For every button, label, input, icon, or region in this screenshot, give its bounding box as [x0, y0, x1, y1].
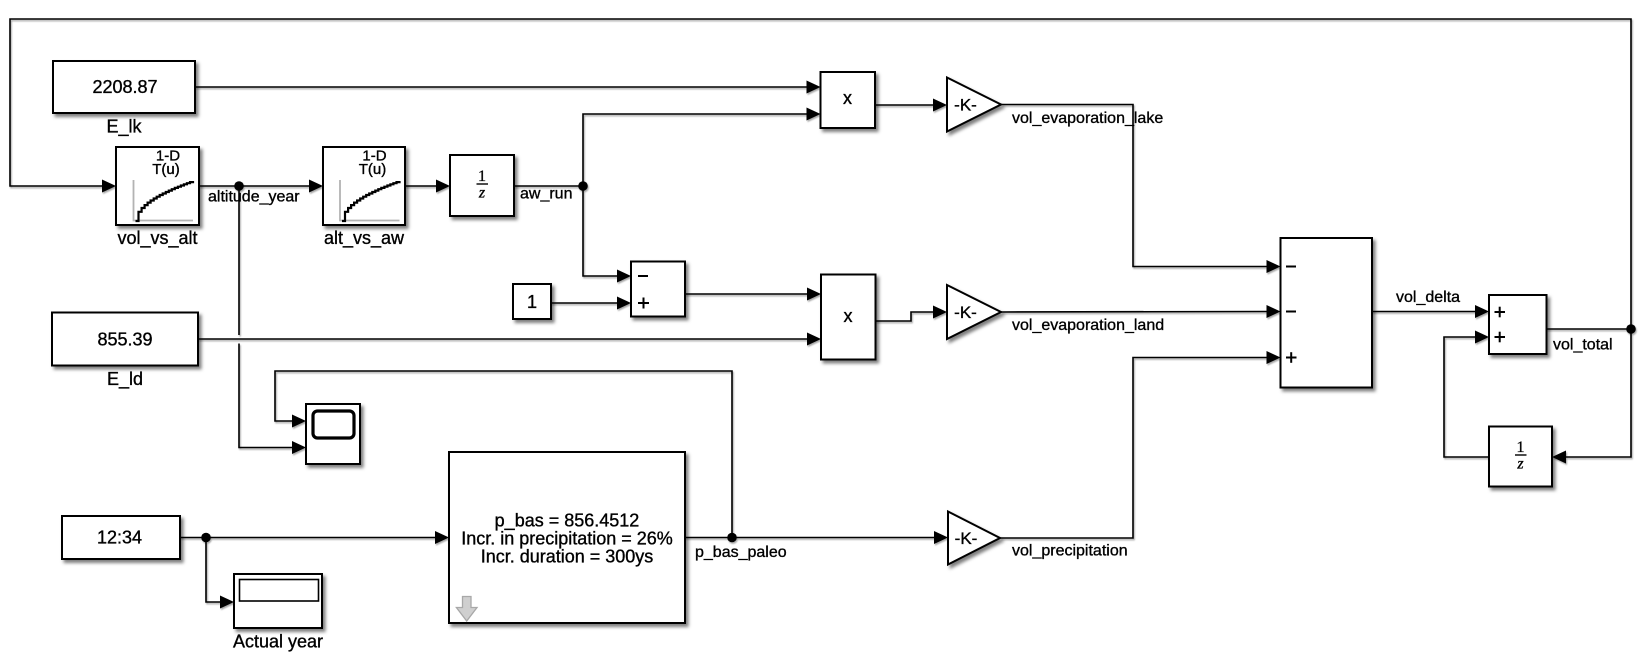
- wire constant 1 to sum plus: [551, 302, 618, 304]
- svg-text:vol_evaporation_lake: vol_evaporation_lake: [1012, 110, 1163, 127]
- svg-text:p_bas_paleo: p_bas_paleo: [695, 544, 787, 561]
- svg-text:alt_vs_aw: alt_vs_aw: [324, 228, 405, 249]
- svg-text:vol_precipitation: vol_precipitation: [1012, 543, 1128, 560]
- svg-text:z: z: [478, 185, 486, 202]
- svg-text:T(u): T(u): [359, 161, 387, 178]
- scope: [306, 404, 360, 464]
- wire clock down to display: [206, 538, 221, 603]
- gain -K- vol_evaporation_lake: [947, 78, 1001, 132]
- svg-text:E_ld: E_ld: [107, 369, 143, 390]
- svg-text:-K-: -K-: [955, 529, 978, 548]
- product X1 (lake): [821, 72, 876, 128]
- wire product X2 to gain land: [876, 312, 934, 321]
- wire p_bas_paleo up to scope: [275, 371, 732, 538]
- wire sum to product X2: [685, 293, 808, 295]
- svg-text:1: 1: [527, 292, 537, 312]
- svg-text:Actual year: Actual year: [233, 632, 323, 652]
- wire big sum to small sum (vol_delta): [1372, 311, 1476, 313]
- svg-text:E_lk: E_lk: [106, 117, 142, 138]
- svg-text:12:34: 12:34: [97, 528, 142, 548]
- lookup table vol_vs_alt: [116, 147, 199, 225]
- svg-text:Incr. in precipitation = 26%: Incr. in precipitation = 26%: [461, 529, 673, 549]
- wire unit delay 2 to small sum: [1444, 337, 1489, 457]
- svg-text:1: 1: [1517, 439, 1525, 456]
- node p_bas_paleo: [727, 533, 737, 543]
- svg-text:vol_vs_alt: vol_vs_alt: [117, 228, 197, 249]
- svg-text:-K-: -K-: [954, 96, 977, 115]
- svg-text:T(u): T(u): [152, 161, 180, 178]
- wire alt_vs_aw to unit delay: [405, 185, 437, 187]
- wire feedback vol_total to vol_vs_alt: [10, 19, 1631, 329]
- wire subsystem to gain precipitation (p_bas_paleo): [685, 537, 935, 539]
- svg-text:vol_total: vol_total: [1553, 337, 1613, 354]
- wire unit delay out (aw_run): [514, 185, 583, 187]
- product X2 (land): [821, 275, 876, 360]
- svg-text:x: x: [843, 88, 852, 108]
- node altitude_year: [234, 181, 244, 191]
- subsystem p_bas paleo: [449, 452, 685, 623]
- node clock out: [201, 533, 211, 543]
- wire vol_total down to unit delay 2: [1566, 329, 1632, 457]
- unit delay 1/z (aw_run): [450, 155, 514, 216]
- svg-text:aw_run: aw_run: [520, 186, 572, 203]
- constant E_lk (2208.87): [53, 61, 195, 113]
- gain -K- vol_evaporation_land: [947, 285, 1001, 339]
- svg-text:x: x: [844, 306, 853, 326]
- digital clock 12:34: [62, 516, 180, 559]
- lookup table alt_vs_aw: [323, 147, 405, 225]
- display (Actual year): [234, 574, 322, 628]
- svg-text:Incr. duration = 300ys: Incr. duration = 300ys: [481, 547, 654, 567]
- big sum (- - +): [1281, 238, 1373, 388]
- svg-text:altitude_year: altitude_year: [208, 189, 300, 206]
- wire altitude_year down to scope (with crossover gap): [238, 186, 240, 335]
- wire E_ld to product X2: [198, 338, 808, 340]
- svg-text:vol_delta: vol_delta: [1396, 289, 1460, 306]
- wire aw_run up to product X1: [583, 114, 807, 186]
- wire clock to subsystem: [180, 537, 436, 539]
- constant E_ld (855.39): [52, 313, 198, 366]
- wire product X1 to gain lake: [875, 104, 934, 106]
- wire E_lk to product X1: [195, 86, 807, 88]
- small sum (+ +): [1489, 295, 1547, 354]
- unit delay 1/z feedback: [1489, 427, 1552, 487]
- wire gain land to big sum: [1001, 311, 1267, 314]
- wire small sum out (vol_total): [1547, 328, 1632, 330]
- svg-text:z: z: [1516, 456, 1524, 473]
- svg-text:vol_evaporation_land: vol_evaporation_land: [1012, 317, 1164, 334]
- wire gain lake to big sum: [1001, 105, 1267, 267]
- svg-text:1: 1: [478, 168, 486, 185]
- wire gain precipitation to big sum: [1000, 358, 1267, 539]
- node vol_total: [1626, 324, 1636, 334]
- gain -K- vol_precipitation: [948, 512, 1000, 565]
- wire aw_run down to sum minus: [583, 186, 618, 276]
- svg-text:855.39: 855.39: [97, 330, 152, 350]
- constant 1: [513, 284, 551, 319]
- svg-text:-K-: -K-: [954, 303, 977, 322]
- sum block (- +): [631, 262, 685, 317]
- wire vol_vs_alt to alt_vs_aw (altitude_year): [199, 185, 310, 187]
- node aw_run: [578, 181, 588, 191]
- svg-text:2208.87: 2208.87: [92, 77, 157, 97]
